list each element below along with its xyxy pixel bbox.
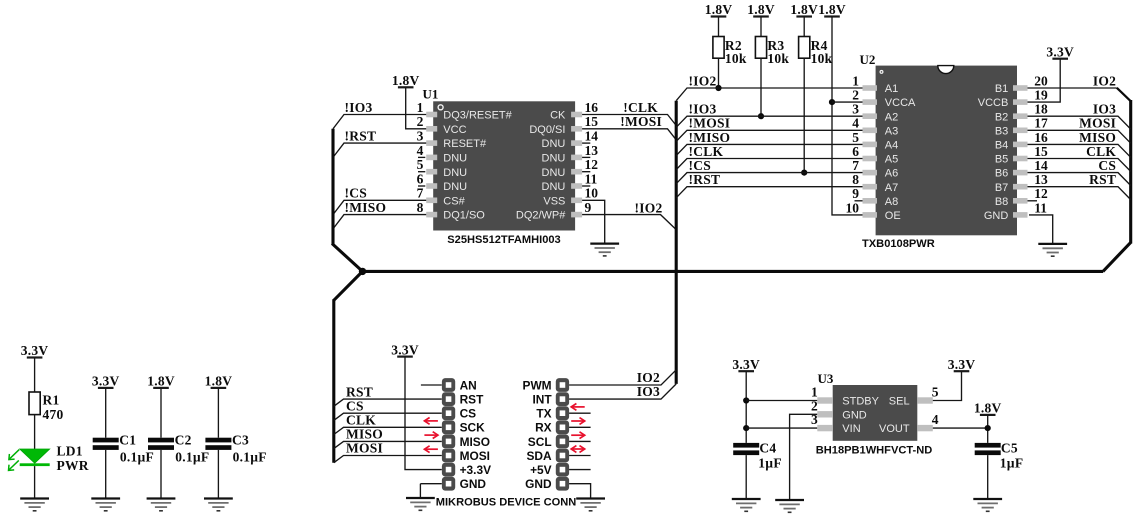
wire !IO3 to U1 pin1 — [333, 115, 426, 129]
U1 pin 11 (DNU) stub — [542, 171, 598, 193]
U2 pin 9 (A8) stub — [852, 186, 898, 208]
U2 pin 20 (B1) stub — [995, 73, 1048, 95]
U2 pin 12 (B8) stub — [995, 186, 1048, 208]
svg-text:10k: 10k — [811, 51, 833, 66]
U2 pin 13 (B7) stub — [995, 172, 1048, 194]
svg-text:1.8V: 1.8V — [974, 401, 1002, 416]
arrow INT in — [571, 404, 585, 411]
U1 pin 5 (DNU) stub — [417, 157, 468, 179]
svg-text:GND: GND — [984, 210, 1009, 222]
wire !MISO to U1 pin8 — [333, 215, 426, 229]
svg-text:1.8V: 1.8V — [205, 374, 233, 389]
svg-text:!CS: !CS — [689, 158, 712, 173]
wire !MOSI to U2 pin 4 — [676, 130, 862, 141]
wire IO2 PWM to mid bus — [569, 370, 676, 385]
wire U2 pin 15 to right bus — [1028, 159, 1131, 172]
svg-text:CS: CS — [346, 398, 364, 413]
svg-text:!RST: !RST — [689, 172, 721, 187]
svg-text:SEL: SEL — [889, 396, 910, 408]
svg-text:A6: A6 — [885, 168, 898, 180]
wire 1.8V to U2 VCCA and OE — [832, 17, 863, 215]
svg-text:DNU: DNU — [443, 167, 467, 179]
svg-text:RST: RST — [1089, 172, 1116, 187]
arrow TX out — [571, 418, 585, 425]
header P2 mikrobus right — [556, 378, 569, 490]
wire TX stub — [569, 412, 591, 414]
U1 pin 12 (DNU) stub — [542, 157, 599, 179]
power flag 1.8V (C3 branch) — [205, 374, 233, 389]
capacitor C5 1uF — [975, 441, 1024, 471]
svg-text:DQ0/SI: DQ0/SI — [529, 124, 565, 136]
svg-text:5: 5 — [852, 130, 859, 145]
svg-text:AN: AN — [460, 378, 477, 392]
power flag 3.3V (U3 input) — [732, 357, 760, 372]
bus middle vertical — [675, 101, 678, 384]
capacitor C2 0.1uF — [148, 433, 209, 465]
wire 3.3V to U2 pin19 VCCB — [1028, 59, 1061, 102]
wire CS to left header — [334, 413, 442, 420]
svg-text:A3: A3 — [885, 125, 898, 137]
wire U3 pin3 VIN — [746, 427, 817, 429]
svg-text:9: 9 — [585, 200, 592, 215]
wire 1.8V to R2 — [718, 17, 720, 37]
svg-text:SDA: SDA — [526, 449, 552, 463]
svg-text:U2: U2 — [860, 52, 876, 67]
wire right header GND to ground — [569, 484, 591, 499]
U1 pin5 stub wire — [418, 171, 425, 173]
IC U2 TXB0108PWR body — [860, 52, 1018, 235]
svg-text:13: 13 — [1034, 172, 1048, 187]
wire 1.8V to U1 pin2 VCC — [406, 87, 427, 129]
svg-text:C1: C1 — [119, 433, 136, 448]
svg-text:GND: GND — [525, 477, 552, 491]
svg-text:8: 8 — [852, 172, 859, 187]
bus horizontal main — [363, 270, 1104, 273]
svg-text:!MISO: !MISO — [345, 200, 387, 215]
U1 pin 9 (DQ2/WP#) stub — [516, 200, 592, 222]
wire 1.8V to R4 — [803, 17, 805, 37]
arrow RX out — [571, 432, 585, 439]
U2 pin 10 (OE) stub — [846, 200, 901, 222]
bus right diagonal to horizontal — [1103, 242, 1131, 271]
svg-text:VCC: VCC — [443, 124, 466, 136]
svg-text:LD1: LD1 — [57, 444, 83, 459]
svg-text:3.3V: 3.3V — [732, 357, 760, 372]
svg-text:C4: C4 — [759, 441, 776, 456]
bus lower-left vertical (mikrobus side) — [332, 299, 335, 463]
svg-text:7: 7 — [417, 186, 424, 201]
ground (U1 VSS) — [590, 244, 619, 256]
svg-text:14: 14 — [1034, 158, 1048, 173]
svg-text:1.8V: 1.8V — [392, 73, 420, 88]
bus diagonal IO2 top-right — [1117, 88, 1131, 101]
svg-text:DNU: DNU — [542, 181, 566, 193]
header P1 mikrobus left — [442, 378, 455, 490]
U1 pin 10 (VSS) stub — [543, 186, 598, 208]
svg-text:!IO2: !IO2 — [689, 73, 717, 88]
svg-text:U1: U1 — [423, 87, 439, 102]
svg-text:RST: RST — [460, 393, 485, 407]
junction dot (U3 pin1) — [743, 397, 749, 403]
ground (LD1) — [20, 499, 49, 511]
svg-text:C3: C3 — [232, 433, 249, 448]
U2 pin 11 (GND) stub — [984, 200, 1047, 222]
svg-text:CS: CS — [460, 407, 477, 421]
svg-text:CS: CS — [1098, 158, 1116, 173]
U1 pin13 stub wire — [582, 156, 590, 158]
arrow MISO out — [424, 432, 438, 439]
svg-text:IO3: IO3 — [637, 384, 660, 399]
ground (C4) — [732, 499, 761, 511]
svg-text:SCL: SCL — [528, 435, 552, 449]
svg-text:3.3V: 3.3V — [1046, 44, 1074, 59]
power flag 3.3V (U2 VCCB) — [1046, 44, 1074, 59]
svg-text:5: 5 — [417, 157, 424, 172]
svg-text:IO3: IO3 — [1093, 102, 1116, 117]
svg-text:C5: C5 — [1001, 441, 1018, 456]
wire 3.3V to R1 — [34, 358, 36, 393]
svg-text:0.1µF: 0.1µF — [233, 450, 267, 465]
svg-text:1µF: 1µF — [758, 456, 782, 471]
wire U2 pin 14 to right bus — [1028, 173, 1131, 186]
svg-text:CS#: CS# — [443, 195, 465, 207]
svg-text:PWR: PWR — [57, 458, 89, 473]
svg-text:16: 16 — [585, 100, 599, 115]
svg-text:U3: U3 — [818, 371, 834, 386]
svg-text:0.1µF: 0.1µF — [120, 450, 154, 465]
wire U3 pin5 SEL to 3.3V — [933, 371, 962, 400]
svg-text:TX: TX — [536, 407, 551, 421]
svg-text:DNU: DNU — [443, 153, 467, 165]
arrow MOSI in — [424, 446, 438, 453]
U3 pin5 stub — [889, 384, 939, 407]
svg-text:8: 8 — [417, 200, 424, 215]
wire U2 pin2 VCCA — [832, 101, 868, 103]
svg-text:17: 17 — [1034, 116, 1048, 131]
IC U3 BH18PB1WHFVCT-ND body — [818, 371, 918, 441]
wire +5V stub — [569, 469, 591, 471]
wire C5 to ground — [987, 455, 989, 499]
svg-text:!IO2: !IO2 — [635, 200, 663, 215]
power flag 1.8V (R3) — [747, 2, 775, 17]
svg-text:+5V: +5V — [530, 463, 552, 477]
svg-text:DNU: DNU — [542, 153, 566, 165]
U1 pin 14 (DNU) stub — [542, 129, 599, 151]
wire U2 pin 13 to right bus — [1028, 187, 1131, 200]
wire U2 pin 17 to right bus — [1028, 130, 1131, 143]
svg-text:12: 12 — [1034, 186, 1048, 201]
junction dot (VOUT) — [985, 425, 991, 431]
svg-text:B6: B6 — [995, 168, 1008, 180]
U1 pin 16 (CK) stub — [550, 100, 598, 122]
junction dot (R3) — [758, 113, 764, 119]
ground (C2) — [147, 499, 176, 511]
svg-text:!RST: !RST — [345, 129, 377, 144]
junction dot (R2) — [715, 85, 721, 91]
wire 1.8V to C3 — [217, 388, 219, 438]
ground (C1) — [91, 499, 120, 511]
svg-text:10k: 10k — [767, 51, 789, 66]
svg-text:MOSI: MOSI — [346, 441, 383, 456]
svg-text:3.3V: 3.3V — [948, 357, 976, 372]
U2 pin 7 (A6) stub — [852, 158, 898, 180]
svg-text:!IO3: !IO3 — [345, 100, 373, 115]
svg-text:B8: B8 — [995, 196, 1008, 208]
svg-text:1.8V: 1.8V — [818, 2, 846, 17]
U2 pin 1 (A1) stub — [852, 73, 898, 95]
svg-text:470: 470 — [43, 407, 64, 422]
U1 pin 1 (DQ3/RESET#) stub — [417, 100, 513, 122]
svg-text:!CS: !CS — [345, 186, 368, 201]
svg-text:B1: B1 — [995, 83, 1008, 95]
svg-text:MISO: MISO — [346, 427, 383, 442]
wire U1 pin15 DQ0/SI to mid bus — [582, 129, 676, 140]
wire U2 pin11 GND to ground — [1029, 215, 1053, 244]
svg-text:RX: RX — [535, 421, 552, 435]
svg-text:!MISO: !MISO — [689, 130, 731, 145]
svg-text:1µF: 1µF — [1000, 456, 1024, 471]
svg-text:2: 2 — [417, 114, 424, 129]
svg-text:A2: A2 — [885, 111, 898, 123]
ground (U2 GND) — [1038, 244, 1067, 256]
ground (C5) — [973, 499, 1002, 511]
junction dot (VCCA) — [829, 99, 835, 105]
svg-text:!IO3: !IO3 — [689, 102, 717, 117]
svg-text:MIKROBUS DEVICE CONN: MIKROBUS DEVICE CONN — [436, 497, 577, 509]
arrow SCL bidir — [571, 446, 585, 453]
svg-text:11: 11 — [585, 171, 598, 186]
wire !RST to U2 pin 8 — [676, 187, 862, 198]
resistor R1 — [29, 392, 64, 422]
wire RST to left header — [334, 399, 442, 406]
svg-text:3.3V: 3.3V — [391, 342, 419, 357]
U3 pin2 stub — [811, 398, 867, 421]
svg-text:10k: 10k — [725, 51, 747, 66]
svg-text:IO2: IO2 — [637, 370, 660, 385]
header P1 pin labels — [460, 378, 491, 491]
U3 pin1 stub — [811, 385, 880, 408]
LED LD1 PWR — [9, 444, 89, 474]
svg-text:A1: A1 — [885, 83, 898, 95]
svg-text:10: 10 — [846, 200, 860, 215]
wire 1.8V to R3 — [760, 17, 762, 37]
svg-text:S25HS512TFAMHI003: S25HS512TFAMHI003 — [447, 234, 560, 246]
U2 pin12 stub wire — [1028, 200, 1038, 202]
svg-text:GND: GND — [460, 477, 487, 491]
U2 pin 18 (B2) stub — [995, 102, 1048, 124]
wire R2 to net — [718, 58, 720, 88]
U2 pin 16 (B4) stub — [995, 130, 1048, 152]
capacitor C1 0.1uF — [93, 433, 154, 465]
svg-text:7: 7 — [852, 158, 859, 173]
wire SDA stub — [569, 455, 591, 457]
wire MOSI to left header — [334, 456, 442, 463]
svg-text:A5: A5 — [885, 154, 898, 166]
wire 3.3V input rail — [745, 371, 747, 443]
wire U2 pin 20 to right bus — [1028, 87, 1117, 89]
wire R3 to net — [760, 58, 762, 116]
svg-text:1.8V: 1.8V — [705, 2, 733, 17]
wire MISO to left header — [334, 441, 442, 448]
svg-text:6: 6 — [417, 171, 424, 186]
U2 pin 15 (B5) stub — [995, 144, 1048, 166]
svg-text:VOUT: VOUT — [879, 423, 910, 435]
svg-text:A8: A8 — [885, 196, 898, 208]
svg-text:1: 1 — [811, 385, 818, 400]
ground (C3) — [204, 499, 233, 511]
U2 pin9 stub wire — [855, 200, 863, 202]
svg-text:TXB0108PWR: TXB0108PWR — [862, 238, 935, 250]
wire R4 to net — [803, 58, 805, 172]
wire C3 to ground — [217, 450, 219, 499]
capacitor C3 0.1uF — [205, 433, 266, 465]
wire U2 pin 16 to right bus — [1028, 144, 1131, 157]
svg-text:3: 3 — [811, 412, 818, 427]
wire SCL stub — [569, 440, 591, 442]
U2 pin 5 (A4) stub — [852, 130, 898, 152]
svg-text:CLK: CLK — [1086, 144, 1116, 159]
wire !MISO to U2 pin 5 — [676, 144, 862, 155]
svg-text:OE: OE — [885, 210, 901, 222]
svg-text:1: 1 — [852, 73, 859, 88]
svg-text:!CLK: !CLK — [623, 100, 658, 115]
power flag 1.8V (U2 VCCA) — [818, 2, 846, 17]
wire U1 pin16 CK to mid bus — [582, 115, 676, 126]
svg-text:B7: B7 — [995, 182, 1008, 194]
resistor R4 10k — [799, 37, 833, 67]
svg-text:4: 4 — [417, 143, 424, 158]
svg-text:RST: RST — [346, 384, 373, 399]
svg-text:C2: C2 — [175, 433, 192, 448]
svg-text:16: 16 — [1034, 130, 1048, 145]
svg-text:1.8V: 1.8V — [747, 2, 775, 17]
arrow SCK in — [424, 418, 438, 425]
U1 pin 15 (DQ0/SI) stub — [529, 114, 598, 136]
svg-text:4: 4 — [852, 116, 859, 131]
U1 pin 6 (DNU) stub — [417, 171, 468, 193]
svg-text:10: 10 — [585, 186, 599, 201]
bus left vertical (U1 side) — [331, 129, 334, 245]
wire C4 to ground — [745, 455, 747, 499]
U1 pin12 stub wire — [582, 171, 590, 173]
svg-text:11: 11 — [1034, 200, 1047, 215]
svg-text:DNU: DNU — [443, 181, 467, 193]
svg-text:3: 3 — [852, 102, 859, 117]
IC U1 S25HS512TFAMHI003 body — [423, 87, 576, 231]
svg-text:STDBY: STDBY — [842, 396, 879, 408]
svg-text:B2: B2 — [995, 111, 1008, 123]
U1 pin6 stub wire — [418, 185, 425, 187]
U1 pin 4 (DNU) stub — [417, 143, 468, 165]
power flag 3.3V (U3 SEL) — [948, 357, 976, 372]
wire !CS to U1 pin7 — [333, 200, 426, 214]
U1 pin14 stub wire — [582, 142, 590, 144]
power flag 1.8V (U1 VCC) — [392, 73, 420, 88]
resistor R3 10k — [755, 37, 789, 67]
svg-text:14: 14 — [585, 129, 599, 144]
wire U1 pin10 VSS to ground — [582, 200, 605, 243]
U3 pin4 stub — [879, 412, 939, 435]
power flag 3.3V (C1 branch) — [92, 374, 120, 389]
U1 pin 13 (DNU) stub — [542, 143, 599, 165]
svg-text:15: 15 — [1034, 144, 1048, 159]
svg-text:DNU: DNU — [542, 138, 566, 150]
wire CLK to left header — [334, 427, 442, 434]
svg-text:!MOSI: !MOSI — [689, 116, 731, 131]
svg-text:A4: A4 — [885, 140, 898, 152]
svg-text:RESET#: RESET# — [443, 138, 487, 150]
ground (U3 GND) — [775, 500, 804, 512]
svg-text:MOSI: MOSI — [460, 449, 490, 463]
svg-text:B3: B3 — [995, 125, 1008, 137]
wire !IO3 to U2 pin 3 — [676, 116, 862, 127]
U2 pin 17 (B3) stub — [995, 116, 1048, 138]
junction dot (U3 pin3) — [743, 425, 749, 431]
wire R1 to LD1 — [34, 415, 36, 449]
svg-text:!MOSI: !MOSI — [620, 114, 662, 129]
wire U3 pin4 VOUT to 1.8V and C5 — [933, 427, 988, 429]
svg-text:20: 20 — [1034, 73, 1048, 88]
svg-text:12: 12 — [585, 157, 599, 172]
U2 pin 2 (VCCA) stub — [852, 88, 916, 110]
svg-text:VIN: VIN — [842, 423, 860, 435]
wire RX stub — [569, 426, 591, 428]
capacitor C4 1uF — [733, 441, 782, 471]
svg-text:3: 3 — [417, 129, 424, 144]
wire LD1 to ground — [34, 466, 36, 498]
svg-text:DQ3/RESET#: DQ3/RESET# — [443, 110, 512, 122]
bus diagonal junction to lower vertical — [334, 271, 363, 300]
bus diagonal to junction — [332, 244, 363, 272]
svg-text:6: 6 — [852, 144, 859, 159]
wire C2 to ground — [160, 450, 162, 499]
bus right vertical — [1129, 100, 1132, 244]
wire U1 pin9 DQ2/WP# to mid bus — [582, 215, 676, 230]
wire U3 pin1 STDBY — [746, 400, 817, 402]
svg-text:1.8V: 1.8V — [790, 2, 818, 17]
svg-text:VCCB: VCCB — [978, 97, 1009, 109]
power flag 1.8V (C2 branch) — [147, 374, 175, 389]
power flag 1.8V (R2) — [705, 2, 733, 17]
ground (mikrobus right) — [576, 499, 605, 511]
U2 pin 19 (VCCB) stub — [978, 88, 1048, 110]
svg-text:0.1µF: 0.1µF — [175, 450, 209, 465]
svg-text:4: 4 — [932, 412, 939, 427]
svg-text:B5: B5 — [995, 154, 1008, 166]
U1 pin11 stub wire — [582, 185, 590, 187]
svg-text:R1: R1 — [43, 393, 60, 408]
wire !CS to U2 pin 7 — [676, 173, 862, 184]
wire !CLK to U2 pin 6 — [676, 159, 862, 170]
wire 1.8V to C2 — [160, 388, 162, 438]
svg-text:MISO: MISO — [460, 435, 490, 449]
power flag 3.3V (LED branch) — [21, 343, 49, 358]
svg-text:1.8V: 1.8V — [147, 374, 175, 389]
svg-text:IO2: IO2 — [1093, 73, 1116, 88]
svg-text:VCCA: VCCA — [885, 97, 916, 109]
svg-text:SCK: SCK — [460, 421, 486, 435]
wire C1 to ground — [105, 450, 107, 499]
svg-text:B4: B4 — [995, 140, 1008, 152]
U1 pin 8 (DQ1/SO) stub — [417, 200, 486, 222]
wire 3.3V to +3.3V pin — [405, 357, 442, 470]
svg-text:19: 19 — [1034, 88, 1048, 103]
U1 pin 7 (CS#) stub — [417, 186, 466, 208]
svg-text:PWM: PWM — [523, 378, 552, 392]
U2 pin 4 (A3) stub — [852, 116, 898, 138]
svg-text:GND: GND — [842, 409, 867, 421]
U2 pin 3 (A2) stub — [852, 102, 898, 124]
